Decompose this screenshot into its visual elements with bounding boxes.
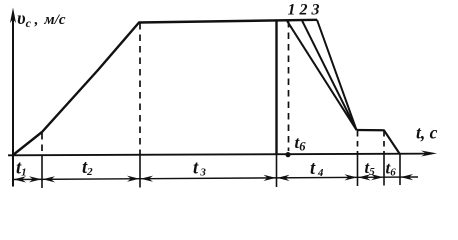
node dot on axis at t6 bbox=[285, 152, 290, 157]
dashed line at t5/t6 boundary bbox=[383, 131, 385, 155]
braking line 3 bbox=[317, 20, 357, 130]
svg-text:1: 1 bbox=[288, 2, 296, 19]
svg-text:t, c: t, c bbox=[416, 123, 438, 143]
dimension arrows t3 bbox=[141, 176, 154, 182]
y-axis bbox=[12, 13, 14, 187]
dimension arrows t1 bbox=[14, 176, 27, 182]
extension line below axis at t2/t3 boundary bbox=[139, 155, 141, 188]
dimension arrow t6 outside bbox=[401, 174, 414, 180]
creep-speed step and final descent bbox=[357, 130, 401, 154]
braking line 1 bbox=[287, 21, 357, 130]
dashed line at t4/t5 boundary bbox=[357, 131, 359, 155]
extension line below axis at t3/t4 boundary bbox=[276, 155, 278, 187]
dashed line at t1 boundary bbox=[41, 133, 43, 155]
dimension line bbox=[13, 177, 418, 180]
velocity curve: ramp up and flat top bbox=[13, 20, 317, 155]
extension line below axis at t4/t5 boundary bbox=[357, 155, 359, 187]
vertical drop line at end of t3 bbox=[275, 20, 277, 155]
x-axis arrowhead bbox=[421, 151, 437, 157]
extension line below axis at end of t6 bbox=[399, 154, 401, 185]
dashed line at t2/t3 boundary bbox=[139, 23, 141, 155]
dimension arrows t4 bbox=[277, 175, 290, 181]
svg-text:3: 3 bbox=[311, 2, 320, 19]
x-axis bbox=[8, 154, 432, 156]
svg-text:υc , м/с: υc , м/с bbox=[17, 8, 66, 30]
y-axis arrowhead bbox=[10, 8, 16, 24]
dimension arrows t2 bbox=[43, 176, 56, 182]
braking line 2 bbox=[302, 20, 357, 130]
svg-text:2: 2 bbox=[299, 2, 308, 19]
extension line below axis at t5/t6 boundary bbox=[383, 155, 385, 186]
extension line below axis at t1 boundary bbox=[41, 155, 43, 188]
dimension arrows t5 bbox=[358, 174, 371, 180]
dashed line t6 upper bbox=[288, 21, 290, 151]
